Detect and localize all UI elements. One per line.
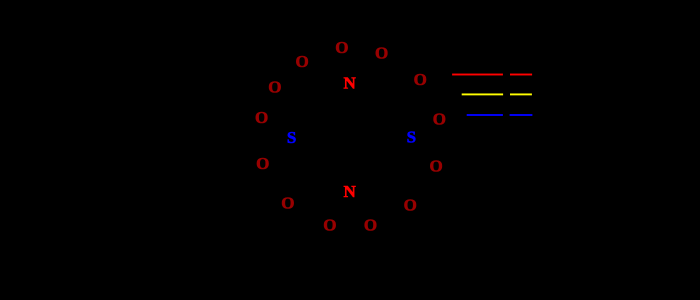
legend dashed line red — [452, 74, 532, 76]
svg-text:O: O — [295, 52, 308, 71]
legend dashed line yellow — [462, 93, 532, 95]
svg-text:O: O — [255, 108, 268, 127]
svg-text:O: O — [256, 154, 269, 173]
svg-text:O: O — [414, 70, 427, 89]
svg-text:O: O — [364, 216, 377, 235]
svg-text:N: N — [343, 74, 356, 93]
svg-text:O: O — [375, 44, 388, 63]
svg-text:N: N — [343, 182, 356, 201]
svg-text:O: O — [323, 216, 336, 235]
svg-text:O: O — [335, 38, 348, 57]
legend dashed line blue — [467, 114, 533, 116]
svg-text:O: O — [433, 110, 446, 129]
svg-text:O: O — [268, 78, 281, 97]
svg-text:O: O — [281, 194, 294, 213]
svg-text:S: S — [287, 128, 296, 147]
svg-text:S: S — [407, 127, 416, 146]
svg-text:O: O — [404, 196, 417, 215]
svg-text:O: O — [429, 156, 442, 175]
